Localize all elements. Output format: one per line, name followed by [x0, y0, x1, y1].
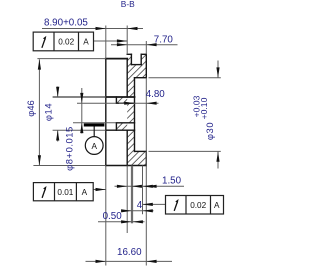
phi8 hole bottom edge	[116, 122, 134, 124]
svg-text:φ8+0.015: φ8+0.015	[64, 126, 75, 171]
FCF U1 runout symbol	[42, 36, 46, 48]
arrow FCF U3 leader	[143, 203, 153, 206]
svg-text:1.50: 1.50	[162, 175, 182, 186]
flange right face lower	[126, 130, 128, 165]
arrow 1.50 left	[117, 185, 127, 188]
ext flange right face above part (8.90/7.70)	[126, 26, 128, 55]
ext 4 right (FCF target)	[142, 166, 144, 215]
svg-text:0.50: 0.50	[103, 211, 123, 222]
svg-text:A: A	[82, 188, 88, 197]
flange left face	[105, 59, 107, 166]
hatch (section lining, all cut material)	[100, 28, 160, 229]
svg-text:φ14: φ14	[43, 103, 54, 121]
dim line 0.50	[98, 221, 145, 223]
arrow phi8 bottom	[80, 123, 83, 133]
part outline (thick edges)	[106, 54, 147, 165]
arrow 1.50 right rim a	[143, 185, 153, 188]
arrow 4.80 left	[124, 102, 134, 105]
FCF U2 (bottom left, runout 0.01 A)	[33, 183, 93, 201]
dim line 4	[121, 210, 154, 212]
leader FCF U3	[143, 203, 166, 205]
groove bottom	[131, 64, 141, 66]
arrow phi46 bottom	[38, 155, 41, 165]
dim line 1.50	[115, 185, 185, 187]
ext flange top to phi46	[37, 58, 105, 60]
arrow phi8 top	[80, 93, 83, 103]
ext phi8 top edge	[77, 102, 116, 104]
bore top edge	[135, 77, 147, 79]
groove left wall	[130, 54, 132, 64]
svg-text:4.80: 4.80	[146, 89, 166, 100]
arrow phi46 top	[38, 59, 41, 69]
arrow 7.70 left	[117, 43, 127, 46]
ext bore bottom to phi30	[149, 150, 221, 152]
ext right face above part (7.70)	[145, 41, 147, 54]
flange right face upper	[126, 59, 128, 97]
bore bottom face	[134, 78, 136, 152]
ext bore top to phi30	[149, 77, 221, 79]
svg-text:8.90+0.05: 8.90+0.05	[44, 17, 88, 28]
svg-text:7.70: 7.70	[154, 35, 174, 46]
arrow FCF U1 leader	[117, 39, 127, 42]
arrow phi30 top	[216, 67, 219, 77]
dim line phi14 lower	[57, 130, 59, 141]
datum A thick bar	[84, 123, 105, 126]
datum A circle	[85, 137, 103, 155]
svg-text:0.01: 0.01	[57, 188, 73, 197]
arrow 0.50 left	[121, 220, 131, 223]
ext phi14 top edge	[53, 96, 106, 98]
arrow phi14 top	[56, 87, 59, 97]
dim line phi14 upper	[57, 87, 59, 98]
arrow phi14 bottom	[56, 130, 59, 140]
dim line phi46	[38, 59, 40, 165]
arrow 7.70 right	[146, 43, 156, 46]
arrow FCF U2 leader	[96, 188, 106, 191]
ext phi14 bottom edge	[53, 129, 106, 131]
phi14 hole top edge	[106, 96, 135, 98]
arrow 0.50 right	[133, 220, 143, 223]
ext 0.50 right	[132, 166, 134, 224]
FCF U3 runout symbol	[174, 199, 178, 211]
svg-text:φ46: φ46	[25, 100, 36, 117]
dim line 16.60	[86, 260, 173, 262]
svg-text:0.02: 0.02	[190, 201, 206, 210]
phi14/phi8 step upper	[115, 97, 117, 103]
datum A connector	[93, 127, 95, 137]
FCF U3 (bottom right, runout 0.02 A)	[166, 196, 224, 215]
svg-text:φ30: φ30	[204, 122, 215, 140]
right lip top	[141, 53, 146, 55]
leader FCF U2	[93, 189, 106, 191]
right face upper	[145, 54, 147, 77]
svg-text:A: A	[91, 142, 97, 151]
FCF U2 runout symbol	[42, 186, 46, 198]
svg-text:B-B: B-B	[121, 0, 135, 9]
ext phi8 bottom edge	[73, 122, 116, 124]
left lip top	[127, 53, 131, 55]
arrow 4 right	[143, 209, 153, 212]
phi8 hole top edge	[116, 102, 134, 104]
dim line phi30 upper	[217, 61, 219, 78]
leader FCF U1	[94, 40, 128, 42]
svg-text:0.02: 0.02	[58, 38, 74, 47]
ext right face full (4.80/16.60)	[145, 78, 147, 266]
dim line 7.70	[111, 44, 178, 46]
bore bottom edge	[135, 150, 147, 152]
ext left edge below part (16.60)	[105, 166, 107, 266]
arrow 4 left	[121, 209, 131, 212]
dim line phi30 lower	[217, 151, 219, 168]
arrow 16.60 left	[96, 260, 106, 263]
arrow 16.60 right	[146, 260, 156, 263]
svg-text:+0.03: +0.03	[191, 95, 201, 117]
svg-text:4: 4	[137, 200, 143, 211]
arrowheads	[38, 27, 220, 263]
groove right wall	[140, 54, 142, 64]
dim line 8.90+0.05	[42, 28, 143, 30]
arrow 8.90 right	[127, 27, 137, 30]
arrow 4.80 right	[146, 102, 156, 105]
part bottom face	[106, 165, 147, 167]
dim line 4.80	[119, 102, 159, 104]
phi14/phi8 step lower	[115, 123, 117, 130]
arrow 8.90 left	[96, 27, 106, 30]
thin dimension / extension lines	[33, 26, 220, 266]
right face lower	[145, 151, 147, 165]
phi14 hole bottom edge	[106, 129, 135, 131]
ext left edge above part (8.90)	[105, 26, 107, 59]
flange top face	[106, 58, 127, 60]
svg-text:A: A	[83, 38, 89, 47]
arrow phi30 bottom	[216, 151, 219, 161]
ext 1.50/4/0.50 left pair a	[130, 166, 132, 224]
FCF U1 (top left, runout 0.02 A)	[33, 32, 93, 51]
svg-text:A: A	[214, 201, 220, 210]
arrow 1.50 right rim b	[146, 185, 156, 188]
arrow 1.50 right	[132, 185, 142, 188]
dim line phi8	[81, 88, 83, 134]
ext part bottom to phi46	[33, 165, 105, 167]
ext flange right face below part (1.50)	[126, 166, 128, 234]
svg-text:16.60: 16.60	[117, 247, 142, 258]
